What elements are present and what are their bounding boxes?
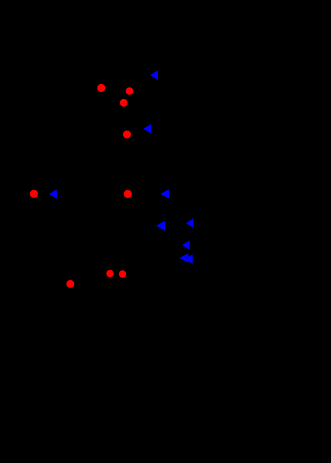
red marker R9: [66, 280, 74, 288]
red marker R1: [97, 84, 105, 92]
blue triangle T7: [182, 240, 190, 250]
red marker R4: [123, 131, 131, 139]
blue triangle T2: [143, 124, 151, 133]
blue triangle T1: [150, 70, 158, 80]
red marker R5: [30, 190, 38, 198]
blue triangle T6: [156, 221, 165, 231]
blue triangle T8: [179, 253, 188, 262]
blue triangle T5: [186, 218, 194, 228]
blue triangle T3: [49, 189, 57, 199]
red marker R8: [119, 270, 126, 277]
blue triangle T9: [184, 254, 193, 263]
red marker R3: [120, 99, 128, 107]
blue triangle T4: [160, 189, 169, 199]
red marker R2: [126, 87, 134, 95]
red marker R7: [106, 270, 113, 277]
red marker R6: [124, 190, 132, 198]
